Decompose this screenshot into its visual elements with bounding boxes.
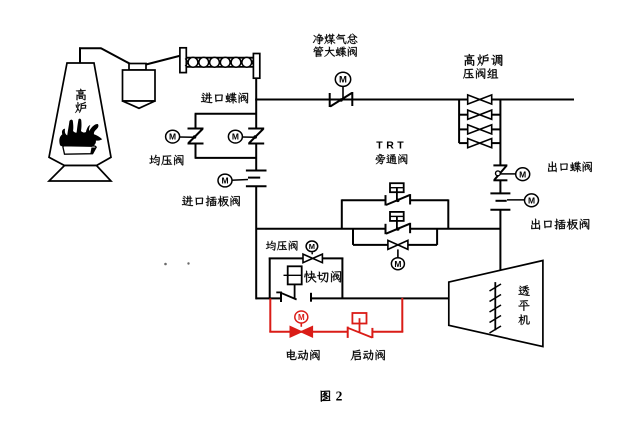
pipe dust catcher to gas washer bbox=[146, 56, 181, 65]
motor M for inlet gate valve bbox=[218, 174, 248, 187]
label 净煤气总 line1 bbox=[313, 34, 358, 45]
svg-text:M: M bbox=[309, 242, 315, 251]
label 快切阀 (quick cut valve) bbox=[304, 271, 341, 283]
motor M for equalizing valve 2 bbox=[306, 241, 318, 252]
V2 pipe down to turbine bbox=[499, 210, 501, 270]
label 旁通阀 (bypass valve) bbox=[376, 154, 408, 164]
uptake pipe from furnace top bbox=[79, 47, 130, 63]
inlet equalizing bypass loop bbox=[195, 114, 257, 158]
label 启动阀 (startup valve) bbox=[351, 350, 385, 361]
motor M for outlet butterfly valve bbox=[500, 168, 530, 181]
inlet butterfly valve (Z valve) on V1 bbox=[248, 129, 264, 144]
label 均压阀 (equalizing valve) bbox=[149, 155, 183, 166]
clean gas main line L1 bbox=[255, 99, 574, 101]
quick-cut bypass loop bbox=[269, 258, 344, 300]
label 管大蝶阀 line2 bbox=[314, 46, 357, 57]
svg-text:M: M bbox=[519, 169, 526, 179]
svg-text:M: M bbox=[221, 176, 228, 186]
bypass valve 1 with actuator bbox=[386, 183, 411, 205]
blast furnace base pedestal bbox=[49, 166, 111, 182]
label 透平机 (turbine) bbox=[518, 285, 529, 325]
clean gas main butterfly valve 净煤气总管大蝶阀 bbox=[330, 87, 353, 108]
label 高炉 (blast furnace) bbox=[75, 89, 86, 113]
label 高炉调 line1 bbox=[464, 54, 502, 66]
label 均压阀 2 bbox=[266, 241, 298, 251]
motor M for outlet gate valve bbox=[507, 194, 539, 207]
flame graphic inside furnace bbox=[59, 119, 102, 155]
label 出口蝶阀 (outlet butterfly valve) bbox=[548, 161, 592, 172]
label 电动阀 (electric valve) bbox=[287, 349, 320, 360]
svg-text:M: M bbox=[169, 132, 176, 142]
svg-text:M: M bbox=[298, 313, 305, 322]
inlet gate valve on V1 bbox=[246, 171, 267, 187]
label 压阀组 line2 bbox=[463, 68, 498, 79]
quick cut valve 快切阀 with actuator box bbox=[276, 266, 311, 302]
svg-text:M: M bbox=[339, 75, 347, 86]
startup valve 启动阀 (red) bbox=[348, 313, 373, 338]
svg-text:M: M bbox=[232, 132, 239, 142]
bypass bowtie valve 3 bbox=[388, 240, 408, 257]
svg-text:T: T bbox=[376, 139, 383, 151]
svg-text:T: T bbox=[397, 139, 404, 151]
pipe L3 to turbine bbox=[256, 297, 450, 299]
motor M for inlet butterfly valve bbox=[228, 130, 254, 143]
bypass upper branch pipe bbox=[342, 199, 449, 228]
gas washer / scrubber with roller circles bbox=[180, 48, 260, 78]
equalizing valve (Z valve) on bypass bbox=[188, 129, 204, 144]
svg-text:M: M bbox=[528, 195, 535, 205]
turbine shaft with hatch marks bbox=[490, 282, 502, 333]
V2 stub between outlet valves bbox=[499, 180, 501, 193]
equalizing valve 2 bowtie bbox=[303, 252, 322, 262]
pressure regulating valve group 高炉调压阀组 bbox=[459, 95, 500, 165]
electric valve 电动阀 (red bowtie) bbox=[290, 323, 312, 337]
blast furnace body 高炉 bbox=[49, 63, 111, 166]
motor M for electric valve (red) bbox=[295, 311, 308, 323]
label 进口插板阀 (inlet gate valve) bbox=[182, 196, 240, 207]
scan speck artifacts bbox=[164, 262, 190, 265]
bypass lower branch pipe bbox=[353, 229, 437, 245]
pipe L2 bypass header bbox=[256, 228, 500, 230]
caption 图 bbox=[321, 391, 331, 402]
bypass valve 2 with actuator bbox=[386, 212, 411, 234]
motor M for bypass valve 3 bbox=[391, 258, 404, 270]
turbine 透平机 bbox=[449, 261, 543, 347]
svg-text:M: M bbox=[394, 259, 401, 269]
outlet butterfly valve (Z valve) on V2 bbox=[493, 165, 507, 180]
main inlet vertical pipe V1 bbox=[255, 78, 257, 299]
svg-text:R: R bbox=[386, 139, 394, 151]
label 出口插板阀 (outlet gate valve) bbox=[531, 219, 589, 230]
red startup circuit piping bbox=[269, 298, 403, 332]
label T R T bbox=[376, 139, 404, 151]
dust catcher bbox=[123, 64, 156, 109]
label 进口蝶阀 (inlet butterfly valve) bbox=[201, 93, 248, 104]
motor M for clean gas main valve bbox=[335, 72, 350, 86]
svg-text:2: 2 bbox=[336, 389, 343, 404]
motor M for equalizing valve bbox=[166, 130, 194, 143]
outlet gate valve on V2 bbox=[490, 193, 510, 209]
